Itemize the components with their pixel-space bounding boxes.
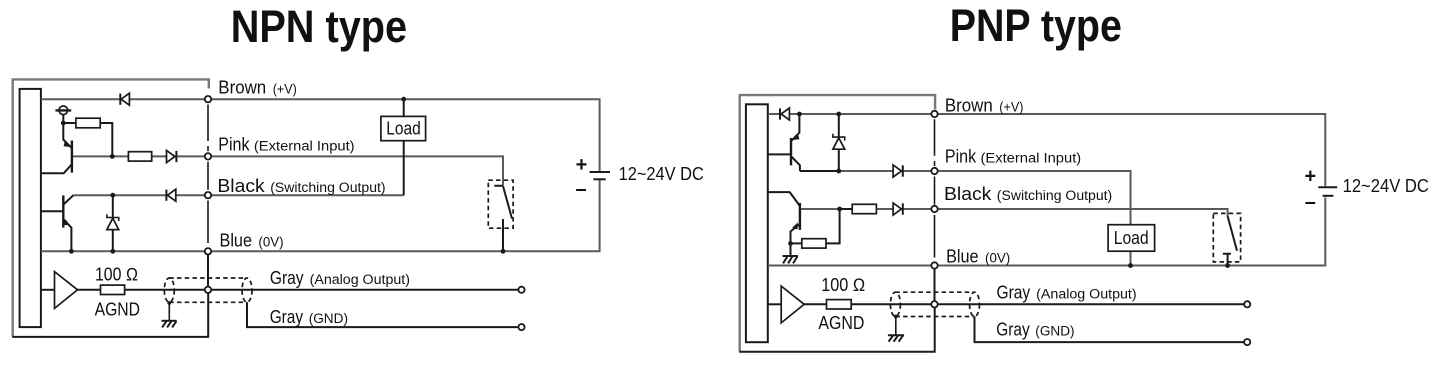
svg-text:(Switching Output): (Switching Output) bbox=[270, 180, 385, 196]
svg-text:(Switching Output): (Switching Output) bbox=[997, 188, 1112, 204]
svg-text:(+V): (+V) bbox=[273, 82, 297, 98]
svg-text:Black: Black bbox=[944, 184, 992, 204]
svg-text:+: + bbox=[1304, 165, 1316, 187]
svg-text:Brown: Brown bbox=[218, 78, 266, 98]
svg-text:–: – bbox=[1305, 192, 1316, 214]
svg-text:(0V): (0V) bbox=[985, 251, 1010, 267]
svg-text:Blue: Blue bbox=[220, 231, 253, 251]
svg-text:(Analog Output): (Analog Output) bbox=[1036, 287, 1136, 303]
svg-text:(GND): (GND) bbox=[309, 311, 348, 327]
svg-text:12~24V DC: 12~24V DC bbox=[1343, 176, 1429, 196]
svg-text:AGND: AGND bbox=[95, 299, 140, 319]
svg-text:PNP type: PNP type bbox=[950, 0, 1122, 51]
svg-text:Black: Black bbox=[217, 176, 265, 196]
svg-text:Load: Load bbox=[386, 119, 421, 139]
svg-text:Gray: Gray bbox=[270, 268, 304, 288]
svg-text:12~24V DC: 12~24V DC bbox=[619, 164, 704, 184]
svg-text:–: – bbox=[575, 178, 586, 200]
svg-text:Pink: Pink bbox=[218, 135, 250, 155]
svg-text:+: + bbox=[576, 154, 588, 176]
svg-text:Gray: Gray bbox=[996, 320, 1029, 340]
svg-text:(+V): (+V) bbox=[999, 99, 1023, 115]
svg-text:(GND): (GND) bbox=[1035, 324, 1074, 340]
svg-text:100 Ω: 100 Ω bbox=[821, 275, 865, 295]
svg-text:Gray: Gray bbox=[997, 283, 1031, 303]
svg-text:Load: Load bbox=[1114, 228, 1149, 248]
svg-text:(External Input): (External Input) bbox=[981, 151, 1082, 167]
svg-text:Blue: Blue bbox=[946, 247, 979, 267]
svg-text:(Analog Output): (Analog Output) bbox=[310, 272, 410, 288]
svg-text:Pink: Pink bbox=[945, 147, 977, 167]
svg-text:100 Ω: 100 Ω bbox=[95, 264, 138, 284]
svg-text:NPN type: NPN type bbox=[231, 1, 407, 52]
svg-text:Gray: Gray bbox=[270, 307, 303, 327]
svg-text:(0V): (0V) bbox=[258, 235, 283, 251]
svg-text:(External Input): (External Input) bbox=[254, 139, 355, 155]
svg-text:AGND: AGND bbox=[818, 313, 864, 333]
svg-text:Brown: Brown bbox=[945, 95, 993, 115]
